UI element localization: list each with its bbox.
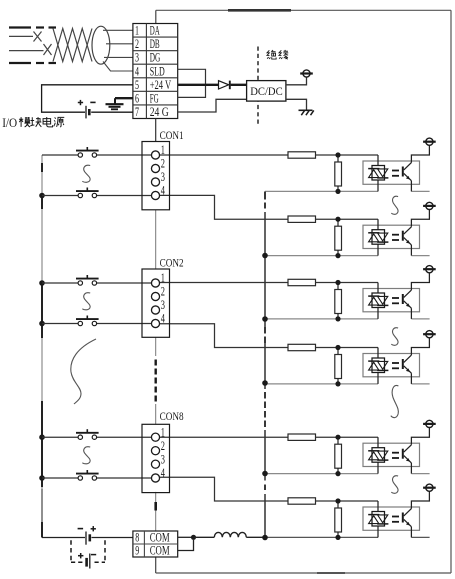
svg-text:3: 3 [135,51,139,65]
svg-text:24 G: 24 G [150,105,169,119]
svg-text:DB: DB [150,37,160,51]
svg-text:5: 5 [135,78,139,92]
svg-text:DA: DA [150,24,160,38]
svg-text:4: 4 [135,64,139,78]
svg-text:DC/DC: DC/DC [250,84,283,98]
svg-text:7: 7 [135,105,139,119]
svg-text:I/O: I/O [2,116,17,130]
svg-text:3: 3 [161,451,165,466]
svg-text:1: 1 [135,24,139,38]
svg-text:CON2: CON2 [160,256,184,270]
svg-text:DG: DG [150,51,161,65]
svg-text:8: 8 [135,531,139,545]
svg-text:4: 4 [161,183,166,198]
svg-text:6: 6 [135,91,139,105]
svg-text:9: 9 [135,544,139,558]
svg-text:4: 4 [161,311,166,326]
svg-text:FG: FG [150,91,159,105]
svg-text:COM: COM [150,544,170,558]
svg-text:4: 4 [161,465,166,480]
svg-text:2: 2 [135,37,139,51]
svg-text:+24 V: +24 V [150,78,172,92]
svg-text:COM: COM [150,531,170,545]
svg-text:CON1: CON1 [160,128,184,142]
svg-text:CON8: CON8 [160,409,184,423]
svg-text:SLD: SLD [150,64,165,78]
